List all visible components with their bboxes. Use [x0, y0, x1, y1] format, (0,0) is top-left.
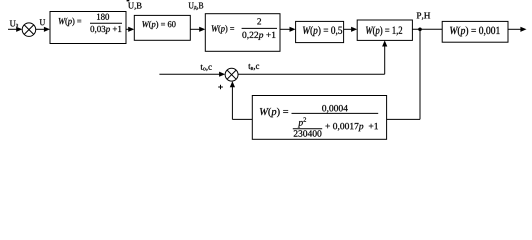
node label tо,с [200, 65, 211, 71]
wire node P down into W7 input [387, 29, 420, 119]
wire W1 to W2 [126, 27, 134, 32]
stray mark above label U,В [127, 0, 130, 1]
wire S2 output tв,с up into W5 bottom [238, 40, 387, 74]
wire W3 to W4 [280, 27, 296, 32]
wire input Uз to summing junction S1 [8, 27, 22, 32]
node label Р,Н [417, 13, 430, 20]
wire tо,с input to S2 [159, 72, 225, 77]
node label Uз [10, 21, 18, 27]
summing junction S1 [22, 23, 36, 37]
block W7 feedback transfer function 0,0004/(p^2/230400+0,0017p+1) [252, 96, 386, 140]
wire W7 output to S2 [230, 81, 253, 119]
label plus sign at S2 input [218, 85, 223, 90]
wire W6 output [508, 27, 527, 32]
wire W5 to node P [412, 28, 442, 30]
wire W4 to W5 [344, 27, 358, 32]
block W4 transfer function 0,5 [296, 21, 344, 42]
node P junction dot [418, 28, 422, 32]
block W5 transfer function 1,2 [357, 20, 412, 40]
wire W2 to W3 [190, 27, 205, 32]
wire S1 to block W1 [36, 27, 50, 32]
block W1 transfer function 180/(0,03p+1) [50, 12, 126, 44]
node label tв,с [248, 64, 259, 70]
block W6 transfer function 0,001 [442, 21, 508, 42]
node label Uд,В [189, 3, 204, 11]
node label U [40, 19, 45, 25]
summing junction S2 [225, 68, 238, 81]
node label U,В [128, 3, 141, 10]
block W2 transfer function 60 [134, 15, 190, 40]
block W3 transfer function 2/(0,22p+1) [205, 14, 280, 52]
